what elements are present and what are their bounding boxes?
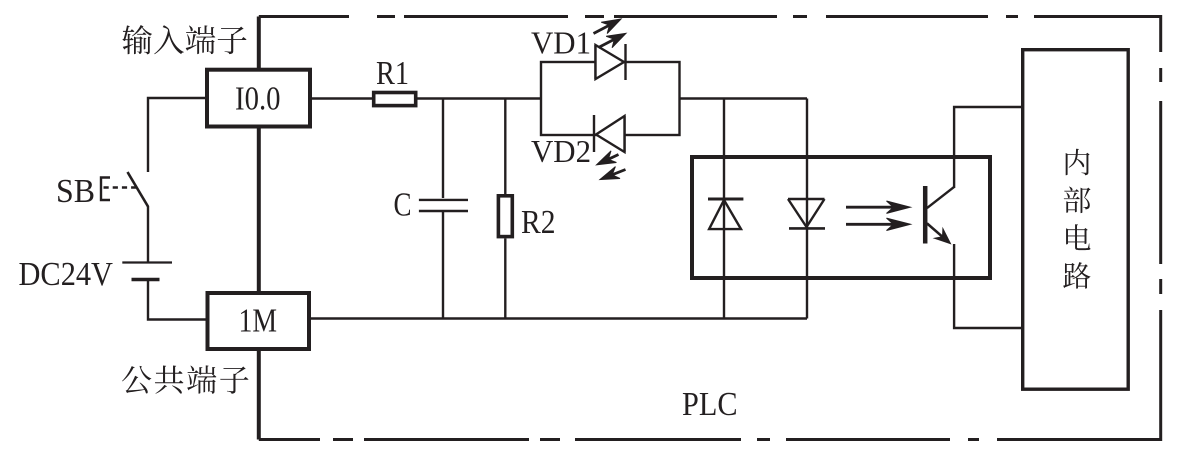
svg-text:R2: R2: [521, 204, 556, 241]
svg-text:SB: SB: [56, 173, 95, 210]
svg-text:VD1: VD1: [531, 26, 591, 61]
svg-text:VD2: VD2: [531, 134, 591, 169]
svg-text:1M: 1M: [239, 303, 278, 340]
svg-text:I0.0: I0.0: [235, 81, 281, 118]
svg-text:C: C: [394, 187, 412, 224]
svg-text:PLC: PLC: [682, 386, 738, 423]
svg-text:R1: R1: [376, 55, 409, 92]
svg-text:DC24V: DC24V: [19, 256, 114, 293]
